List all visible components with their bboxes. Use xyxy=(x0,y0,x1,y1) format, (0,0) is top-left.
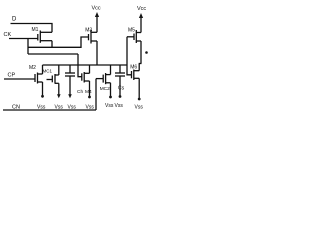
wire node B horizontal xyxy=(28,53,78,55)
transistor M2 xyxy=(35,65,43,95)
svg-text:M3: M3 xyxy=(85,28,92,34)
node D input wire xyxy=(11,24,53,33)
wire CN riser to MC2 gate xyxy=(95,79,97,110)
node output dot xyxy=(145,51,148,54)
svg-text:Vcc: Vcc xyxy=(137,6,146,12)
wire M3 source down to rail xyxy=(96,41,98,65)
wire CP to M2 gate xyxy=(4,78,35,80)
wire M3 drain to Vcc xyxy=(96,16,98,32)
transistor MC2 xyxy=(96,65,111,96)
svg-text:M5: M5 xyxy=(128,28,135,34)
svg-text:Vss: Vss xyxy=(55,105,64,111)
wire CK to M1 gate xyxy=(9,38,38,40)
svg-text:M2: M2 xyxy=(29,65,36,71)
ground Vss dot M4 xyxy=(88,96,91,99)
svg-text:Cs: Cs xyxy=(118,86,125,92)
ground Vss dot M2 xyxy=(41,95,44,98)
svg-text:M1: M1 xyxy=(32,27,39,33)
svg-text:D: D xyxy=(12,17,17,23)
svg-text:CN: CN xyxy=(12,105,20,111)
transistor MC1 xyxy=(47,65,59,95)
ground Vss dot Cs xyxy=(119,95,122,98)
power Vcc arrow left xyxy=(95,12,99,17)
svg-text:M4: M4 xyxy=(85,89,92,95)
transistor M3 xyxy=(89,30,98,44)
svg-text:M6: M6 xyxy=(130,64,137,70)
wire CK branch vertical xyxy=(27,39,29,55)
power Vcc arrow right xyxy=(139,13,143,18)
svg-text:Ch: Ch xyxy=(77,89,83,95)
capacitor Cs xyxy=(115,65,125,96)
svg-text:MC2: MC2 xyxy=(100,86,110,92)
svg-text:CP: CP xyxy=(8,73,16,79)
wire M5 source down to M6 drain xyxy=(140,41,142,64)
svg-text:Vss: Vss xyxy=(135,105,144,111)
svg-text:Vss: Vss xyxy=(68,105,77,111)
ground Vss arrow MC1 xyxy=(57,94,61,98)
svg-text:Vss: Vss xyxy=(115,103,124,109)
svg-text:Vss: Vss xyxy=(37,105,46,111)
ground Vss dot M6 xyxy=(138,98,141,101)
wire node A to M3 gate xyxy=(28,37,89,47)
svg-text:Vss: Vss xyxy=(86,105,95,111)
svg-text:Vcc: Vcc xyxy=(92,6,101,12)
transistor M5 xyxy=(127,30,141,43)
wire M5 drain to Vcc xyxy=(140,17,142,33)
transistor M1 xyxy=(38,31,52,48)
svg-text:CK: CK xyxy=(4,32,12,38)
capacitor Ch xyxy=(65,65,75,95)
svg-text:MC1: MC1 xyxy=(43,69,53,74)
ground Vss dot MC2 xyxy=(109,96,112,99)
wire main middle rail xyxy=(43,64,128,66)
transistor M6 xyxy=(132,64,142,99)
wire M5/M6 gate riser xyxy=(127,37,132,75)
wire CN line xyxy=(3,109,96,111)
svg-text:Vss: Vss xyxy=(105,103,114,109)
transistor M4 xyxy=(78,54,90,96)
ground Vss arrow Ch xyxy=(68,94,72,98)
